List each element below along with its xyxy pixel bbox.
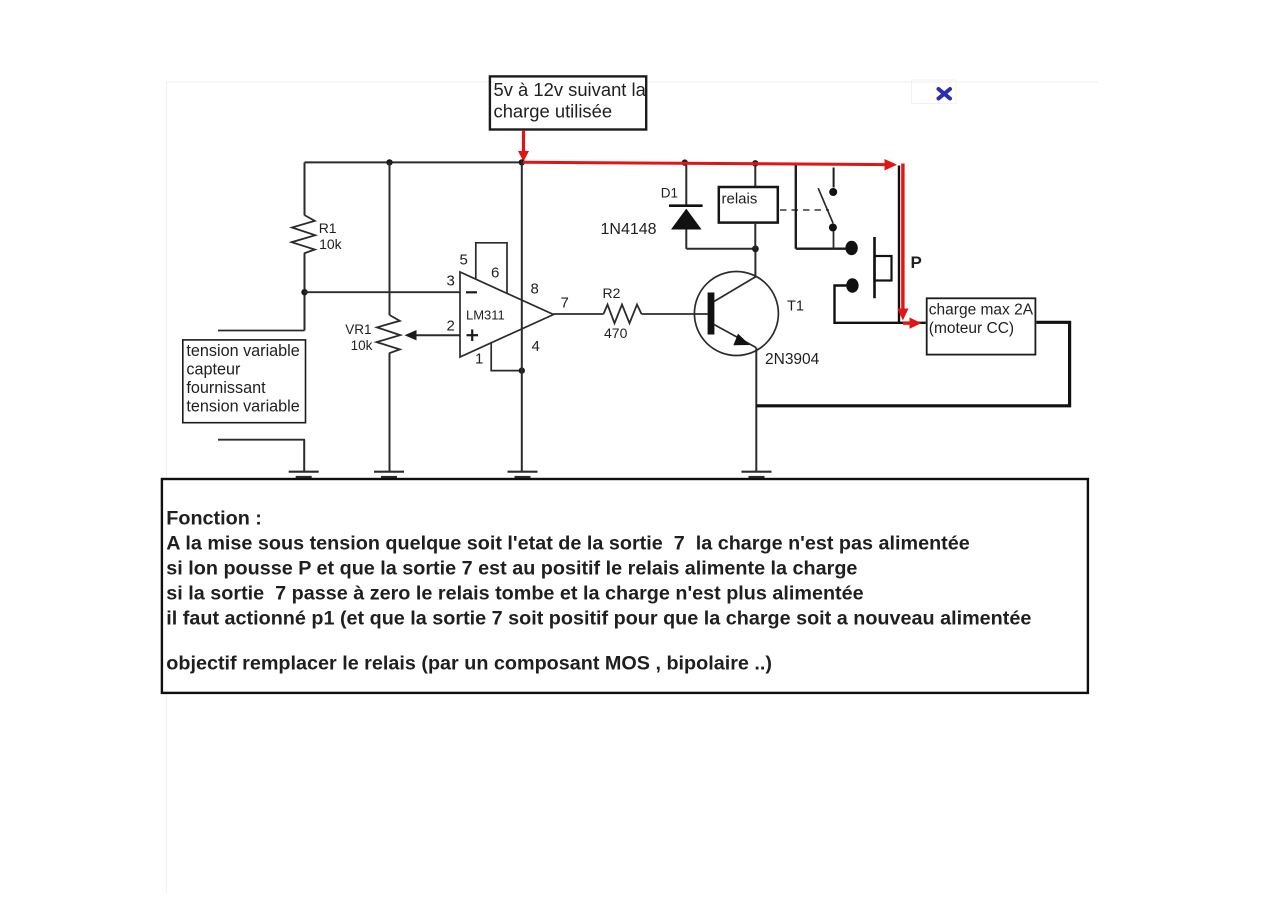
diode D1 cathode bar — [669, 204, 703, 207]
wire: lower terminal to load line — [835, 286, 926, 323]
wire: sensor return to ground — [303, 440, 305, 471]
svg-text:2: 2 — [447, 318, 455, 335]
wire: sensor terminal upper — [218, 330, 305, 332]
transistor T1 base bar — [708, 293, 715, 335]
junction: pin1 / pin4 rail — [519, 367, 525, 373]
wire: contact branch horizontal to NO node — [796, 247, 846, 249]
relay contact point upper — [829, 188, 837, 196]
function description box — [162, 479, 1088, 693]
diode D1 triangle — [671, 209, 702, 230]
svg-text:charge utilisée: charge utilisée — [494, 100, 613, 121]
wire: D1 anode lead — [685, 230, 687, 249]
svg-text:5: 5 — [460, 251, 468, 268]
wiper arrowhead — [405, 330, 417, 340]
junction: D1 top on red rail — [682, 159, 688, 165]
svg-text:6: 6 — [491, 265, 499, 282]
red drop arrowhead down — [897, 309, 908, 321]
wire: emitter vertical to ground — [755, 348, 757, 472]
svg-text:7: 7 — [561, 295, 569, 312]
wire: D1 to collector node — [686, 248, 755, 250]
wire: load return to emitter (thick) — [756, 322, 1069, 406]
red rail arrowhead right — [885, 159, 898, 171]
junction: diode/relay/collector node — [752, 245, 759, 252]
junction: relay coil on red rail — [752, 160, 758, 166]
wire: sensor terminal lower — [218, 439, 305, 441]
pushbutton P upper terminal — [845, 241, 857, 255]
svg-text:A la mise sous tension quelque: A la mise sous tension quelque soit l'et… — [166, 533, 969, 555]
svg-text:P: P — [911, 253, 922, 272]
relay armature — [818, 188, 833, 223]
wire: relay common tick from red rail — [833, 168, 835, 188]
pushbutton P bar — [873, 237, 876, 298]
non-inverting input mark — [467, 334, 479, 336]
wire: VR1 vertical upper — [389, 162, 391, 315]
svg-text:3: 3 — [447, 273, 455, 290]
svg-text:si la sortie 7 passe à zero l: si la sortie 7 passe à zero le relais to… — [166, 583, 863, 605]
transistor T1 emitter stroke — [714, 325, 756, 348]
red vertical drop — [901, 164, 904, 311]
junction: R1 / pin3 node — [301, 289, 307, 295]
svg-text:(moteur CC): (moteur CC) — [929, 320, 1014, 337]
dashed mechanical link coil to contact — [780, 209, 829, 211]
svg-text:1N4148: 1N4148 — [601, 221, 657, 238]
svg-text:5v à 12v suivant la: 5v à 12v suivant la — [494, 79, 647, 100]
wire: rail to relay coil — [754, 163, 756, 187]
svg-text:1: 1 — [475, 350, 483, 367]
svg-text:R2: R2 — [603, 285, 621, 301]
wire: mid vertical rail to ground — [521, 162, 523, 471]
svg-text:fournissant: fournissant — [186, 379, 266, 397]
svg-text:Fonction :: Fonction : — [166, 507, 262, 529]
svg-text:10k: 10k — [351, 338, 373, 353]
note box: supply voltage annotation — [490, 76, 646, 129]
pushbutton P actuator — [875, 256, 892, 281]
relay coil box K1 — [719, 187, 778, 223]
red supply rail — [523, 162, 888, 164]
ground symbol (sensor) — [289, 472, 319, 477]
wire: lower contact stub — [833, 231, 835, 249]
svg-text:T1: T1 — [787, 298, 804, 314]
wire: contact branch vertical from red rail — [795, 164, 797, 249]
junction: VR1 top on rail — [386, 159, 392, 165]
broken-image blue X icon — [939, 89, 951, 99]
wire: pin 1 loop to ground rail — [491, 343, 522, 371]
wire: D1 cathode lead — [685, 163, 687, 206]
wire: R2 to base — [642, 313, 708, 315]
ground symbol (op-amp rail) — [508, 472, 538, 477]
potentiometer VR1 — [377, 315, 401, 353]
wire: node to op-amp pin 3 — [305, 291, 461, 293]
load box: charge — [927, 298, 1036, 354]
svg-text:R1: R1 — [319, 220, 337, 236]
ground symbol (emitter) — [742, 472, 772, 477]
svg-text:10k: 10k — [319, 236, 343, 252]
svg-text:LM311: LM311 — [466, 307, 505, 322]
wire: op-amp output pin 7 — [554, 313, 604, 315]
wire: relay coil to collector node — [754, 223, 756, 249]
svg-text:4: 4 — [532, 338, 540, 355]
resistor R2 — [604, 305, 642, 324]
svg-text:capteur: capteur — [186, 361, 241, 379]
inverting input mark — [466, 291, 477, 293]
wire: left vertical above R1 — [304, 162, 306, 215]
sensor note box — [183, 340, 306, 423]
svg-text:si lon pousse P et que la sort: si lon pousse P et que la sortie 7 est a… — [166, 558, 857, 580]
red supply pointer arrow — [518, 130, 529, 161]
transistor T1 body circle — [694, 272, 778, 356]
red arrow into load — [903, 321, 912, 324]
svg-text:8: 8 — [531, 281, 539, 298]
emitter arrowhead — [733, 334, 749, 346]
wire: VR1 vertical lower to ground — [389, 353, 391, 471]
svg-text:2N3904: 2N3904 — [765, 351, 820, 368]
wire: top rail (R1 top to supply node) — [305, 161, 524, 163]
svg-text:D1: D1 — [661, 185, 678, 200]
wire: pin 5/6 balance loop — [476, 243, 507, 294]
wire: collector vertical — [754, 249, 756, 277]
transistor T1 collector stroke — [714, 277, 756, 302]
resistor R1 — [292, 215, 316, 253]
pushbutton P lower terminal — [846, 278, 858, 292]
wire: left vertical below R1 — [304, 253, 306, 330]
svg-text:objectif remplacer le relais (: objectif remplacer le relais (par un com… — [166, 653, 772, 675]
relay contact point lower — [829, 224, 837, 232]
svg-text:relais: relais — [722, 191, 758, 208]
svg-text:il faut actionné p1 (et que la: il faut actionné p1 (et que la sortie 7 … — [166, 608, 1031, 630]
svg-text:tension variable: tension variable — [186, 342, 299, 360]
svg-text:charge max 2A: charge max 2A — [929, 301, 1034, 318]
broken-image placeholder frame — [912, 80, 957, 104]
svg-text:tension variable: tension variable — [186, 398, 299, 416]
svg-text:VR1: VR1 — [345, 322, 371, 337]
wire: right vertical from supply corner — [898, 166, 900, 323]
wire: wiper to op-amp pin 2 — [414, 334, 460, 336]
junction: supply node on rail — [519, 159, 525, 165]
svg-text:470: 470 — [604, 325, 628, 341]
op-amp U1 LM311 triangle — [460, 272, 554, 357]
ground symbol (VR1) — [374, 472, 404, 477]
